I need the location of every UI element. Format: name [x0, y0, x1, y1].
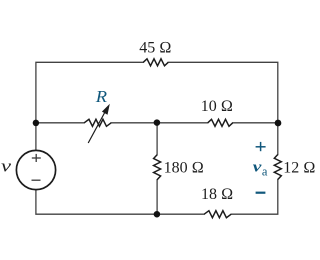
svg-text:v: v [253, 159, 262, 175]
wire bottom node to 18-ohm [157, 213, 204, 215]
wire left node up to top-left corner across to 45-ohm [36, 62, 143, 123]
wire 10-ohm to right node [233, 122, 278, 124]
svg-text:180 Ω: 180 Ω [164, 160, 204, 177]
resistor R (variable) [84, 119, 111, 126]
svg-text:R: R [95, 87, 108, 106]
wire R to middle node [111, 122, 157, 124]
wire left node down to source top [35, 123, 37, 151]
resistor 12 ohm [274, 155, 281, 180]
node left junction [33, 120, 40, 127]
svg-text:10 Ω: 10 Ω [201, 98, 233, 115]
node right junction [275, 120, 282, 127]
voltage source v [16, 150, 55, 189]
svg-text:a: a [262, 165, 268, 179]
wire right node down to 12-ohm [277, 123, 279, 155]
wire source bottom to bottom-left corner across to bottom node [36, 189, 157, 214]
wire middle node to 10-ohm [157, 122, 208, 124]
node bottom junction [154, 211, 161, 218]
wire 12-ohm to bottom-right corner across to 18-ohm [231, 180, 278, 215]
wire left node to variable resistor R [36, 122, 84, 124]
svg-text:12 Ω: 12 Ω [283, 160, 315, 177]
wire 180-ohm to bottom node [156, 180, 158, 214]
resistor 180 ohm [154, 155, 161, 180]
resistor 18 ohm [204, 211, 231, 218]
wire 45-ohm to top-right corner down to right node [168, 62, 278, 123]
svg-text:45 Ω: 45 Ω [139, 39, 171, 56]
resistor 45 ohm [143, 59, 168, 66]
resistor 10 ohm [208, 119, 233, 126]
node middle junction [154, 119, 161, 126]
label va minus polarity [256, 192, 266, 194]
arrow of variable resistor R [88, 106, 109, 143]
label va plus polarity [256, 142, 266, 151]
svg-text:v: v [1, 157, 12, 176]
svg-text:18 Ω: 18 Ω [201, 186, 233, 203]
source plus sign [32, 154, 41, 180]
source minus sign [32, 179, 41, 181]
wire middle node down to 180-ohm [156, 123, 158, 155]
